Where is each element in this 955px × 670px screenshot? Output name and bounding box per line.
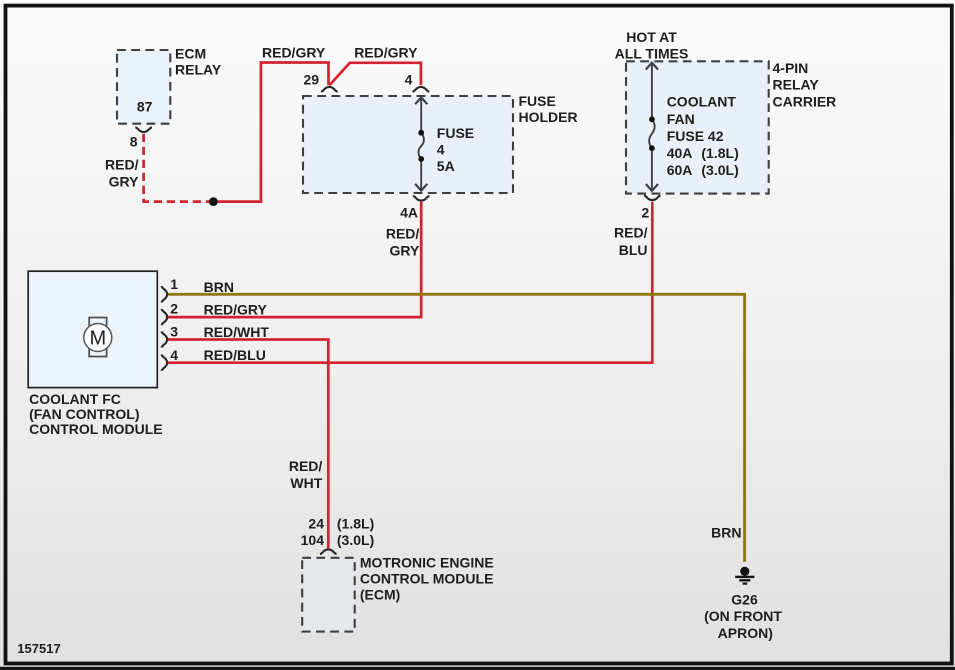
svg-text:CARRIER: CARRIER: [773, 94, 837, 110]
svg-text:4: 4: [170, 347, 178, 363]
svg-text:(1.8L): (1.8L): [701, 145, 738, 161]
svg-text:FUSE: FUSE: [437, 125, 474, 141]
svg-text:CONTROL MODULE: CONTROL MODULE: [360, 571, 494, 587]
svg-text:HOLDER: HOLDER: [519, 109, 578, 125]
svg-text:BLU: BLU: [619, 242, 648, 258]
svg-text:60A: 60A: [667, 162, 693, 178]
svg-text:157517: 157517: [17, 641, 60, 656]
svg-text:APRON): APRON): [718, 625, 773, 641]
svg-text:2: 2: [642, 205, 650, 221]
svg-text:CONTROL MODULE: CONTROL MODULE: [29, 421, 163, 437]
svg-text:4A: 4A: [400, 204, 418, 220]
svg-text:4: 4: [405, 72, 413, 88]
svg-text:GRY: GRY: [389, 243, 419, 259]
svg-text:(1.8L): (1.8L): [337, 516, 374, 532]
svg-text:ECM: ECM: [175, 46, 206, 62]
svg-text:1: 1: [170, 276, 178, 292]
svg-text:87: 87: [137, 99, 153, 115]
svg-text:RELAY: RELAY: [773, 76, 820, 92]
svg-text:FAN: FAN: [667, 111, 695, 127]
svg-text:5A: 5A: [437, 158, 455, 174]
svg-text:RED/: RED/: [105, 156, 139, 172]
svg-text:GRY: GRY: [109, 173, 139, 189]
svg-text:(3.0L): (3.0L): [337, 532, 374, 548]
svg-text:(ECM): (ECM): [360, 587, 400, 603]
svg-text:ALL TIMES: ALL TIMES: [615, 45, 689, 61]
svg-text:COOLANT FC: COOLANT FC: [29, 391, 121, 407]
svg-text:8: 8: [130, 134, 138, 150]
svg-text:G26: G26: [731, 592, 758, 608]
svg-text:BRN: BRN: [711, 525, 741, 541]
svg-text:FUSE: FUSE: [519, 93, 556, 109]
svg-text:HOT AT: HOT AT: [626, 29, 677, 45]
svg-text:RED/GRY: RED/GRY: [354, 45, 418, 61]
svg-text:104: 104: [301, 532, 325, 548]
svg-text:(FAN CONTROL): (FAN CONTROL): [29, 406, 139, 422]
svg-text:COOLANT: COOLANT: [667, 94, 737, 110]
svg-text:RED/: RED/: [386, 226, 420, 242]
svg-text:2: 2: [170, 301, 178, 317]
svg-text:RED/BLU: RED/BLU: [204, 347, 266, 363]
svg-text:RED/GRY: RED/GRY: [262, 45, 326, 61]
svg-text:M: M: [89, 328, 106, 350]
svg-text:RED/: RED/: [614, 225, 648, 241]
svg-text:24: 24: [308, 516, 324, 532]
svg-text:RED/WHT: RED/WHT: [204, 324, 270, 340]
svg-text:4-PIN: 4-PIN: [773, 60, 809, 76]
svg-text:4: 4: [437, 142, 445, 158]
svg-text:29: 29: [304, 72, 320, 88]
svg-text:(ON FRONT: (ON FRONT: [704, 608, 782, 624]
svg-text:(3.0L): (3.0L): [701, 162, 738, 178]
svg-text:RELAY: RELAY: [175, 61, 222, 77]
svg-text:RED/GRY: RED/GRY: [204, 302, 268, 318]
svg-text:FUSE 42: FUSE 42: [667, 128, 724, 144]
svg-text:BRN: BRN: [204, 279, 234, 295]
svg-text:3: 3: [170, 324, 178, 340]
svg-text:40A: 40A: [667, 145, 693, 161]
svg-text:RED/: RED/: [289, 458, 323, 474]
svg-text:MOTRONIC ENGINE: MOTRONIC ENGINE: [360, 555, 494, 571]
svg-text:WHT: WHT: [290, 475, 322, 491]
